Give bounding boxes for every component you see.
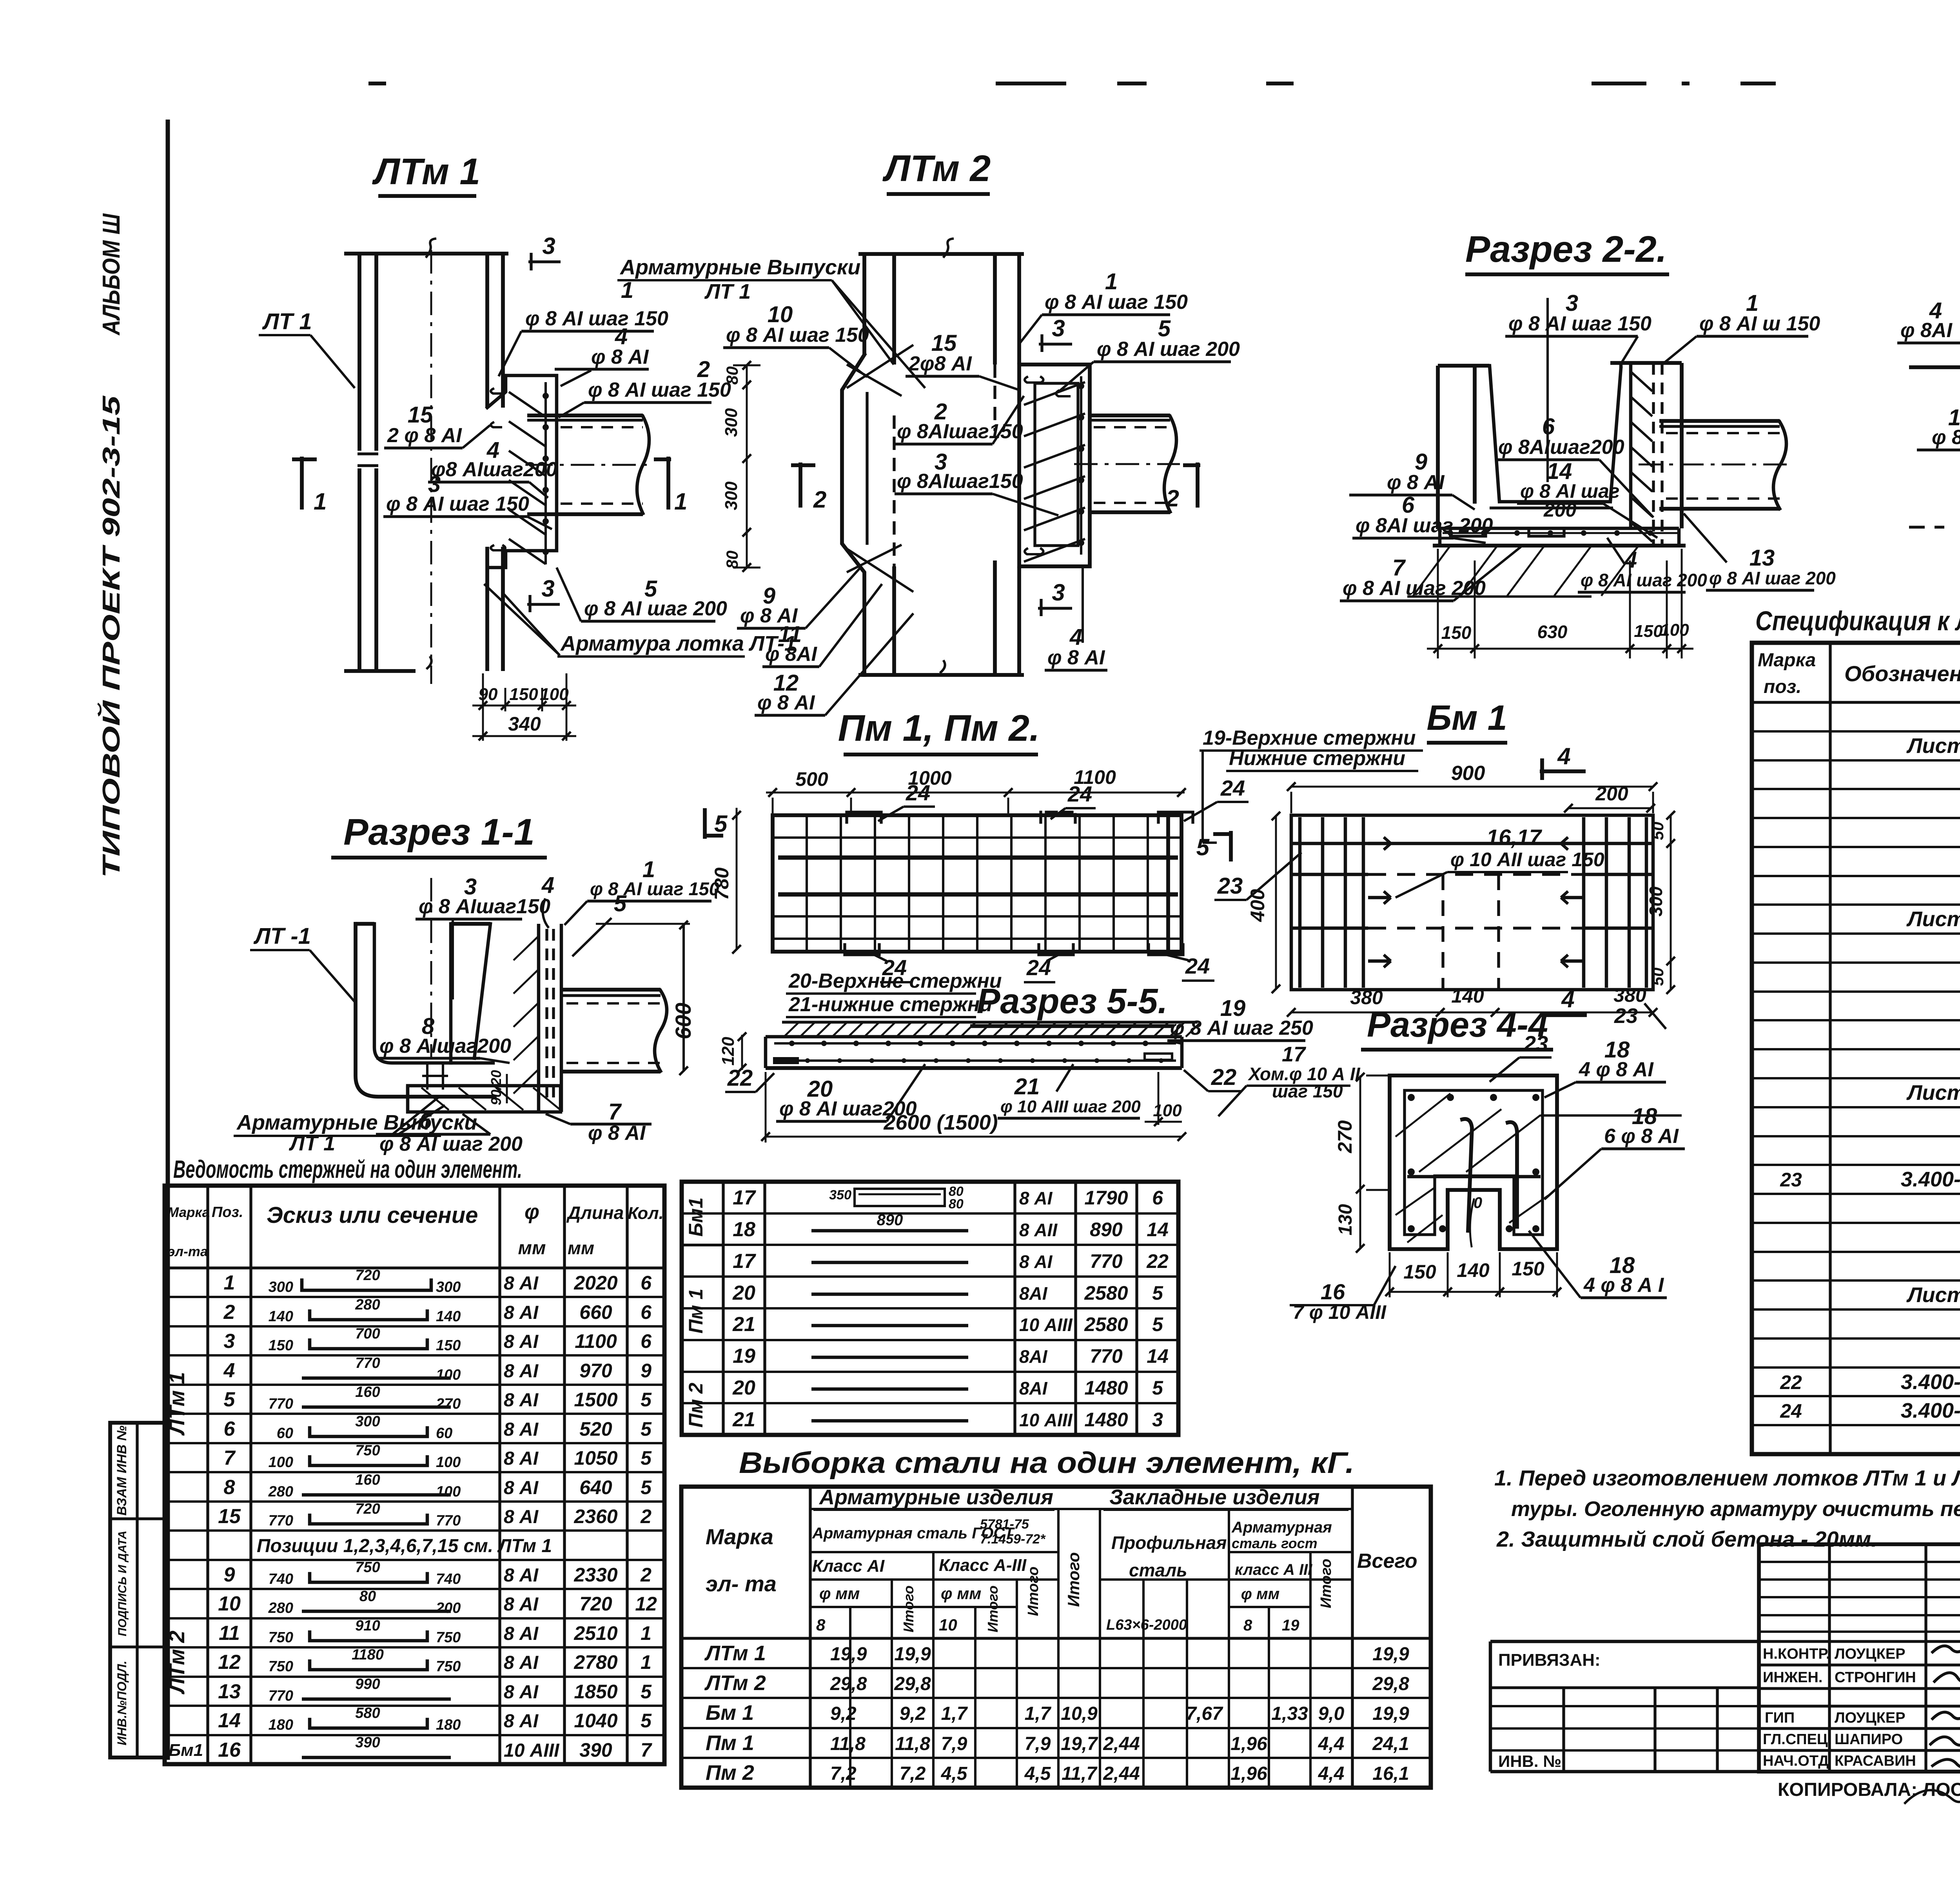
svg-text:8АІ: 8АІ [1019, 1346, 1048, 1367]
svg-text:1: 1 [641, 1622, 652, 1644]
svg-text:4,4: 4,4 [1318, 1734, 1345, 1754]
svg-text:750: 750 [269, 1658, 293, 1675]
svg-text:17: 17 [733, 1250, 756, 1273]
svg-text:150: 150 [1512, 1258, 1544, 1280]
table3 vertical lines [809, 1487, 811, 1788]
svg-text:1: 1 [641, 1651, 652, 1673]
svg-text:1,7: 1,7 [941, 1703, 968, 1724]
LTm2 right wall [993, 254, 997, 365]
R11 pipe [561, 988, 661, 992]
svg-text:300: 300 [1646, 886, 1666, 916]
svg-text:200: 200 [1595, 783, 1628, 805]
svg-text:16,17: 16,17 [1486, 825, 1543, 849]
svg-text:φ 8 АІшаг200: φ 8 АІшаг200 [379, 1035, 511, 1057]
svg-text:20-Верхние стержни: 20-Верхние стержни [788, 970, 1002, 992]
svg-text:7,9: 7,9 [941, 1734, 967, 1754]
svg-text:Арматурные изделия: Арматурные изделия [818, 1485, 1053, 1509]
svg-text:750: 750 [269, 1629, 293, 1646]
svg-text:4 φ 8 АІ: 4 φ 8 АІ [1579, 1058, 1654, 1081]
svg-text:Арматурные Выпуски: Арматурные Выпуски [619, 256, 860, 279]
svg-text:Арматура лотка ЛТ-1: Арматура лотка ЛТ-1 [560, 632, 796, 655]
svg-text:90/20: 90/20 [488, 1070, 504, 1105]
svg-text:4,5: 4,5 [941, 1763, 968, 1784]
svg-text:ИНВ. №: ИНВ. № [1498, 1752, 1561, 1770]
svg-text:14: 14 [218, 1709, 241, 1732]
svg-text:600: 600 [671, 1003, 695, 1039]
svg-text:8 АІ: 8 АІ [504, 1478, 539, 1498]
svg-text:Лист 36: Лист 36 [1906, 1283, 1960, 1307]
R55 dim 100 [1158, 1072, 1160, 1125]
svg-text:300: 300 [269, 1279, 293, 1295]
svg-text:2 φ 8 АІ: 2 φ 8 АІ [387, 424, 462, 447]
svg-text:5781-75: 5781-75 [980, 1517, 1029, 1532]
svg-text:9,2: 9,2 [830, 1703, 857, 1724]
svg-text:1,96: 1,96 [1230, 1734, 1267, 1754]
svg-text:φ 10 АІІІ шаг 200: φ 10 АІІІ шаг 200 [1000, 1097, 1141, 1116]
svg-text:8 АІ: 8 АІ [504, 1682, 539, 1703]
svg-text:21: 21 [732, 1408, 755, 1431]
svg-text:24: 24 [906, 780, 930, 805]
svg-text:ГИП: ГИП [1765, 1710, 1795, 1726]
Pm plan horizontal grid [773, 836, 1181, 839]
svg-text:φ 8 АІ: φ 8 АІ [757, 691, 815, 714]
stamp signatures [1933, 1643, 1960, 1652]
R44 dim 130 [1359, 1190, 1361, 1249]
LTm1 joint hatch [509, 392, 546, 417]
svg-text:2360: 2360 [573, 1505, 617, 1527]
R44 middle horizontal bar [1407, 1175, 1541, 1179]
svg-text:200: 200 [436, 1600, 461, 1616]
svg-text:ЛТм 2: ЛТм 2 [882, 148, 991, 189]
svg-text:L63×6-2000: L63×6-2000 [1106, 1617, 1187, 1633]
LTm1 bottom edge [344, 669, 416, 673]
LTm1 wall break squiggles [426, 239, 435, 257]
LTm2 left wall cross rebars [847, 345, 913, 388]
svg-text:ГЛ.СПЕЦ.: ГЛ.СПЕЦ. [1763, 1731, 1832, 1748]
svg-text:КРАСАВИН: КРАСАВИН [1835, 1753, 1916, 1769]
R11 dims 90 20 [506, 1074, 508, 1103]
Pm plan top dimension [766, 792, 1185, 794]
svg-text:ВЗАМ ИНВ №: ВЗАМ ИНВ № [114, 1426, 129, 1516]
svg-text:1050: 1050 [574, 1447, 617, 1469]
svg-text:8 АІІ: 8 АІІ [1019, 1220, 1058, 1240]
LTm2 bottom edge [858, 673, 1024, 677]
svg-text:24: 24 [1026, 955, 1051, 980]
svg-text:80: 80 [359, 1588, 376, 1605]
svg-text:0: 0 [1474, 1194, 1482, 1212]
svg-text:90: 90 [479, 685, 498, 704]
Bm1 bar end hooks [1368, 842, 1391, 845]
svg-text:2,44: 2,44 [1103, 1763, 1140, 1784]
svg-text:φ 8АІ: φ 8АІ [1932, 426, 1960, 449]
Bm1 bottom dims [1291, 1012, 1653, 1014]
svg-text:8 АІ: 8 АІ [504, 1273, 539, 1294]
svg-text:1500: 1500 [574, 1389, 617, 1411]
R11 armature stubs [426, 1063, 428, 1090]
svg-text:5: 5 [1152, 1377, 1163, 1399]
svg-text:380: 380 [1613, 984, 1646, 1006]
svg-text:Нижние стержни: Нижние стержни [1229, 747, 1405, 770]
svg-text:22: 22 [727, 1065, 753, 1091]
svg-text:160: 160 [355, 1384, 380, 1400]
R44 hatching [1396, 1094, 1450, 1137]
svg-text:580: 580 [355, 1705, 380, 1721]
LTm1 right wall upper [485, 254, 489, 408]
svg-text:4: 4 [1557, 743, 1570, 769]
svg-text:7: 7 [641, 1739, 652, 1761]
svg-text:Класс АІ: Класс АІ [812, 1556, 885, 1576]
svg-text:класс А ІІІ: класс А ІІІ [1235, 1561, 1312, 1578]
svg-text:100: 100 [436, 1484, 461, 1500]
svg-text:29,8: 29,8 [894, 1674, 931, 1694]
svg-text:6: 6 [641, 1272, 652, 1294]
svg-text:ЛТ 1: ЛТ 1 [262, 309, 312, 334]
svg-text:5: 5 [224, 1388, 236, 1411]
svg-text:Позиции 1,2,3,4,6,7,15 см. ЛТм: Позиции 1,2,3,4,6,7,15 см. ЛТм 1 [257, 1536, 552, 1556]
svg-text:7: 7 [608, 1099, 622, 1124]
svg-text:7,67: 7,67 [1186, 1703, 1223, 1724]
Pm plan thick rebar rows [778, 856, 1178, 860]
svg-text:16: 16 [218, 1739, 241, 1761]
R22 channel floor [1499, 500, 1610, 504]
R22 pipe [1659, 419, 1780, 423]
svg-text:21: 21 [732, 1313, 755, 1336]
svg-text:13: 13 [1749, 545, 1775, 571]
Bm1 left dim 400 [1275, 815, 1277, 990]
svg-text:340: 340 [508, 713, 541, 735]
svg-text:8 АІ: 8 АІ [504, 1448, 539, 1469]
svg-text:300: 300 [436, 1279, 461, 1295]
svg-text:ПОДПИСЬ И ДАТА: ПОДПИСЬ И ДАТА [116, 1531, 129, 1636]
svg-text:Бм 1: Бм 1 [706, 1701, 754, 1725]
svg-text:8 АІ: 8 АІ [504, 1390, 539, 1411]
svg-text:ТИПОВОЙ ПРОЕКТ 902-3-15: ТИПОВОЙ ПРОЕКТ 902-3-15 [97, 395, 125, 878]
svg-text:1480: 1480 [1084, 1409, 1128, 1431]
svg-text:9,2: 9,2 [900, 1703, 926, 1724]
svg-text:2φ8 АІ: 2φ8 АІ [908, 352, 972, 375]
R22 centerline of channel [1546, 298, 1549, 482]
spec table frame [1752, 643, 1960, 1454]
svg-text:80: 80 [723, 551, 741, 569]
svg-text:ШАПИРО: ШАПИРО [1835, 1731, 1903, 1748]
R22 right wall tapered [1610, 368, 1621, 502]
svg-text:φ 8 АІ шаг 150: φ 8 АІ шаг 150 [726, 324, 869, 346]
svg-text:7.1459-72*: 7.1459-72* [980, 1532, 1046, 1547]
svg-text:Пм 1, Пм 2.: Пм 1, Пм 2. [838, 707, 1040, 749]
svg-text:1790: 1790 [1084, 1187, 1128, 1209]
table2 frame [682, 1182, 1178, 1435]
svg-text:11,8: 11,8 [895, 1734, 930, 1754]
svg-text:150: 150 [1403, 1261, 1436, 1283]
svg-text:100: 100 [1660, 620, 1689, 640]
svg-text:ЛТ -1: ЛТ -1 [253, 923, 311, 949]
svg-text:4: 4 [1561, 986, 1574, 1012]
svg-text:7,9: 7,9 [1025, 1734, 1051, 1754]
R11 right reinforcement strip [537, 924, 541, 1112]
svg-text:1480: 1480 [1084, 1377, 1128, 1399]
svg-text:6 φ 8 АІ: 6 φ 8 АІ [1604, 1125, 1679, 1148]
svg-text:180: 180 [436, 1717, 461, 1733]
Pm plan vertical grid [806, 815, 808, 952]
svg-text:1100: 1100 [575, 1330, 617, 1352]
LTm1 monolithic joint outline [487, 375, 557, 568]
svg-text:8 АІ: 8 АІ [504, 1565, 539, 1586]
svg-text:2780: 2780 [573, 1651, 617, 1673]
svg-text:φ 8АІ: φ 8АІ [1900, 319, 1953, 342]
left margin stamp column [110, 1423, 165, 1757]
svg-text:φ 8 АІ ш 150: φ 8 АІ ш 150 [1699, 312, 1820, 335]
svg-text:НАЧ.ОТД: НАЧ.ОТД [1763, 1753, 1829, 1769]
Bm1 right dims 50 300 50 [1670, 815, 1672, 990]
svg-text:φ 8 АІ шаг 200: φ 8 АІ шаг 200 [1581, 570, 1707, 590]
svg-text:24: 24 [1780, 1400, 1802, 1422]
svg-text:21: 21 [1014, 1074, 1040, 1099]
svg-text:Лист 36: Лист 36 [1906, 1081, 1960, 1105]
svg-text:8: 8 [1243, 1617, 1252, 1634]
svg-text:23: 23 [1614, 1004, 1638, 1028]
svg-text:2,44: 2,44 [1103, 1734, 1140, 1754]
svg-text:4,5: 4,5 [1024, 1763, 1051, 1784]
LTm1 centerline [430, 250, 432, 684]
svg-text:Пм 1: Пм 1 [706, 1731, 754, 1755]
svg-text:СТРОНГИН: СТРОНГИН [1835, 1669, 1916, 1686]
R22 left wall [1436, 366, 1440, 529]
svg-text:Кол.: Кол. [628, 1204, 664, 1223]
svg-text:ЛОУЦКЕР: ЛОУЦКЕР [1835, 1646, 1906, 1662]
svg-text:720: 720 [579, 1593, 612, 1615]
svg-text:10 АІІІ: 10 АІІІ [504, 1740, 560, 1761]
svg-text:750: 750 [436, 1629, 461, 1646]
svg-text:ЛТ 1: ЛТ 1 [704, 280, 751, 303]
R44 dim 270 [1359, 1075, 1361, 1190]
LTm1 top edge [344, 252, 508, 256]
svg-text:6: 6 [641, 1301, 652, 1323]
svg-text:8 АІ: 8 АІ [504, 1652, 539, 1673]
svg-text:7,2: 7,2 [900, 1763, 926, 1784]
LTm2 joint rebar dots [1080, 376, 1082, 555]
svg-text:18: 18 [733, 1218, 755, 1241]
svg-text:4: 4 [541, 872, 554, 898]
svg-text:770: 770 [355, 1355, 380, 1371]
svg-text:Пм 2: Пм 2 [685, 1382, 707, 1427]
LTm1 bottom dimensions [482, 673, 484, 741]
Pm plan left dim 780 [736, 808, 738, 949]
svg-text:8 АІ: 8 АІ [504, 1623, 539, 1644]
privyazan box [1490, 1640, 1759, 1643]
svg-text:180: 180 [269, 1717, 293, 1733]
svg-text:Эскиз или сечение: Эскиз или сечение [267, 1202, 478, 1228]
svg-text:φ 8 АІшаг150: φ 8 АІшаг150 [419, 895, 550, 918]
svg-text:10: 10 [218, 1592, 241, 1615]
svg-text:8АІ: 8АІ [1019, 1378, 1048, 1398]
svg-text:19,9: 19,9 [830, 1644, 867, 1665]
svg-text:8 АІ: 8 АІ [504, 1419, 539, 1440]
svg-text:1,96: 1,96 [1230, 1763, 1267, 1784]
svg-text:100: 100 [436, 1454, 461, 1471]
svg-text:2: 2 [640, 1564, 652, 1586]
R11 vertical centerline [430, 878, 432, 1058]
Pm plan hook symbols top [847, 812, 881, 822]
svg-text:ИНЖЕН.: ИНЖЕН. [1763, 1669, 1822, 1686]
svg-text:шаг 150: шаг 150 [1272, 1081, 1343, 1101]
svg-text:1: 1 [674, 488, 687, 515]
svg-text:700: 700 [355, 1326, 380, 1342]
svg-text:770: 770 [269, 1513, 293, 1529]
svg-text:22: 22 [1211, 1065, 1237, 1090]
svg-text:100: 100 [269, 1454, 293, 1471]
svg-text:Пм 2: Пм 2 [706, 1761, 754, 1785]
svg-text:2580: 2580 [1084, 1282, 1128, 1304]
svg-text:ЛТм 2: ЛТм 2 [704, 1671, 766, 1695]
svg-text:11,7: 11,7 [1062, 1763, 1098, 1784]
LTm2 joint hatch [1024, 382, 1085, 405]
svg-text:2600 (1500): 2600 (1500) [883, 1111, 998, 1134]
Bm1 dashed verticals [1441, 874, 1444, 990]
svg-text:270: 270 [1334, 1120, 1356, 1153]
table3 header horizontal lines [810, 1508, 1352, 1510]
svg-text:8 АІ: 8 АІ [1019, 1188, 1053, 1208]
R55 slab rebar lines [774, 1042, 1176, 1045]
R22 bottom dimensions [1437, 549, 1439, 658]
svg-text:1,7: 1,7 [1025, 1703, 1052, 1724]
svg-text:150: 150 [436, 1337, 461, 1354]
svg-text:3: 3 [1052, 315, 1065, 341]
svg-text:φ 8 АІ шаг 150: φ 8 АІ шаг 150 [588, 379, 731, 401]
svg-text:24: 24 [1185, 954, 1210, 978]
svg-text:Лист 36: Лист 36 [1906, 907, 1960, 931]
svg-text:Арматурная: Арматурная [1231, 1519, 1332, 1536]
svg-text:Разрез 4-4: Разрез 4-4 [1367, 1005, 1548, 1045]
svg-text:100: 100 [540, 685, 569, 704]
R33 left slab [1909, 365, 1960, 369]
svg-text:9: 9 [641, 1360, 652, 1382]
R44 rebar dots [1408, 1094, 1415, 1101]
svg-text:5: 5 [641, 1681, 652, 1703]
LTm2 section mark T2 left [799, 462, 802, 508]
svg-text:300: 300 [722, 481, 741, 510]
svg-text:150: 150 [1634, 622, 1663, 641]
svg-text:17: 17 [1282, 1043, 1307, 1066]
svg-text:4 φ 8 А І: 4 φ 8 А І [1583, 1274, 1664, 1297]
svg-text:5: 5 [641, 1476, 652, 1498]
svg-text:5: 5 [1152, 1282, 1163, 1304]
svg-text:8 АІ: 8 АІ [504, 1711, 539, 1732]
svg-text:14: 14 [1147, 1219, 1169, 1241]
svg-text:10,9: 10,9 [1061, 1703, 1098, 1724]
svg-text:Итого: Итого [1025, 1567, 1042, 1616]
svg-text:1,33: 1,33 [1271, 1703, 1308, 1724]
svg-text:6: 6 [224, 1418, 236, 1440]
svg-text:10: 10 [939, 1616, 957, 1634]
svg-text:1. Перед изготовлением лотков: 1. Перед изготовлением лотков ЛТм 1 и ЛТ… [1494, 1465, 1960, 1490]
svg-text:3: 3 [1152, 1409, 1163, 1431]
svg-text:8 АІ: 8 АІ [504, 1331, 539, 1352]
LTm2 joint detail block [1019, 365, 1090, 566]
svg-text:22: 22 [1146, 1250, 1169, 1272]
svg-text:750: 750 [355, 1442, 380, 1459]
svg-text:ЛТм 1: ЛТм 1 [372, 151, 480, 192]
svg-text:2020: 2020 [573, 1272, 617, 1294]
svg-text:8: 8 [816, 1616, 826, 1634]
svg-text:9: 9 [224, 1563, 235, 1586]
R11 dim 600 [682, 924, 685, 1072]
svg-text:770: 770 [269, 1396, 293, 1412]
svg-text:660: 660 [579, 1301, 612, 1323]
LTm1 section mark T1 right [666, 457, 670, 510]
svg-text:Класс А-ІІІ: Класс А-ІІІ [939, 1556, 1027, 1575]
svg-text:Бм 1: Бм 1 [1426, 698, 1507, 738]
svg-text:16,1: 16,1 [1372, 1763, 1409, 1784]
svg-text:φ мм: φ мм [819, 1584, 860, 1603]
svg-text:23: 23 [1780, 1169, 1802, 1191]
svg-text:φ 8 АІ шаг 150: φ 8 АІ шаг 150 [1045, 291, 1188, 314]
svg-text:ЛОУЦКЕР: ЛОУЦКЕР [1835, 1710, 1906, 1726]
svg-text:Бм1: Бм1 [169, 1741, 203, 1760]
svg-text:φ 8 АІ: φ 8 АІ [1387, 471, 1445, 494]
svg-text:φ 8 АІ шаг 150: φ 8 АІ шаг 150 [525, 307, 668, 330]
svg-text:160: 160 [355, 1472, 380, 1488]
svg-text:8: 8 [224, 1476, 235, 1499]
svg-text:20: 20 [732, 1377, 755, 1399]
svg-text:3.400-6/76: 3.400-6/76 [1901, 1370, 1960, 1394]
svg-text:4: 4 [223, 1359, 235, 1382]
svg-text:Марка: Марка [1758, 650, 1816, 671]
svg-text:φ 8 АІ шаг 250: φ 8 АІ шаг 250 [1170, 1017, 1313, 1039]
svg-text:Итого: Итого [1318, 1559, 1334, 1608]
svg-text:1850: 1850 [574, 1681, 617, 1703]
top frame dashes [996, 82, 1066, 85]
svg-text:60: 60 [436, 1425, 452, 1442]
svg-text:1180: 1180 [352, 1647, 384, 1663]
svg-text:16: 16 [1321, 1279, 1345, 1304]
R55 top hatched strip [782, 1021, 1198, 1023]
Bm1 dim 200 [1568, 807, 1651, 809]
svg-text:5: 5 [614, 891, 627, 916]
svg-text:Марка: Марка [167, 1205, 210, 1220]
R11 channel LT-1 outline [356, 924, 495, 1097]
LTm2 left dimensions 80 300 300 80 [746, 365, 748, 568]
svg-text:120: 120 [719, 1037, 738, 1066]
LTm2 left wall [862, 254, 866, 355]
table3 outer [681, 1487, 1431, 1788]
svg-text:ЛТм 2: ЛТм 2 [164, 1630, 189, 1694]
svg-text:Лист 36: Лист 36 [1906, 734, 1960, 758]
LTm2 pipe [1090, 414, 1170, 417]
svg-text:3: 3 [541, 575, 554, 602]
svg-text:7: 7 [224, 1447, 236, 1469]
table1 frame [165, 1186, 664, 1764]
svg-text:Итого: Итого [985, 1585, 1001, 1632]
R22 right wall verticals [1629, 363, 1633, 528]
svg-text:12: 12 [218, 1651, 241, 1674]
Pm plan section mark 5 right [1229, 831, 1233, 861]
LTm1 joint rebar bars with dots [544, 382, 547, 564]
LTm2 break squiggles [944, 239, 953, 257]
svg-text:900: 900 [1451, 762, 1485, 785]
svg-text:20: 20 [732, 1282, 755, 1304]
svg-text:φ мм: φ мм [941, 1584, 981, 1603]
svg-text:φ 8 АІ шаг 200: φ 8 АІ шаг 200 [379, 1133, 523, 1155]
R44 outer outline with notch [1390, 1075, 1557, 1249]
svg-text:φ 8 АІ: φ 8 АІ [591, 346, 649, 368]
LTm2 top edge [858, 252, 1024, 256]
Bm1 horizontal bars [1291, 842, 1653, 845]
svg-text:5: 5 [641, 1447, 652, 1469]
svg-text:750: 750 [355, 1559, 380, 1576]
svg-text:2: 2 [813, 486, 826, 513]
svg-text:3.400-6/76: 3.400-6/76 [1901, 1168, 1960, 1191]
svg-text:4,4: 4,4 [1318, 1763, 1345, 1784]
